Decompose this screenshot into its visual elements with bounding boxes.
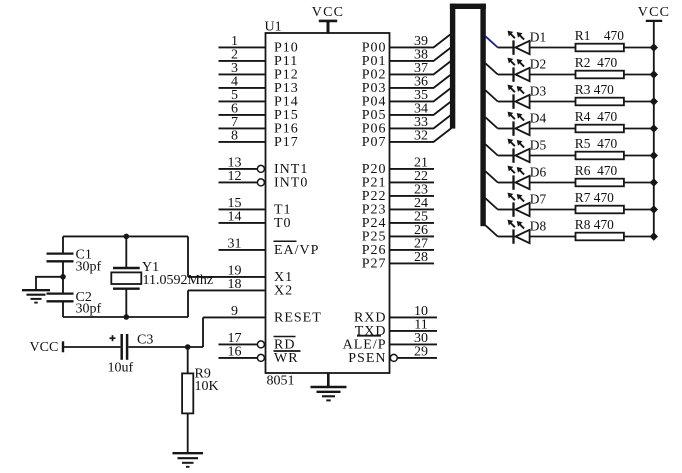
svg-text:8: 8 xyxy=(231,129,238,144)
resistor R4 470 xyxy=(575,109,624,132)
svg-text:31: 31 xyxy=(228,237,242,252)
node rail junction R4 xyxy=(650,124,658,132)
wire LED to resistor xyxy=(530,182,576,184)
svg-text:9: 9 xyxy=(231,304,238,319)
svg-text:D6: D6 xyxy=(530,165,547,180)
node rail junction R7 xyxy=(650,205,658,213)
LED D2 xyxy=(498,57,546,82)
wire resistor to VCC rail xyxy=(624,101,654,103)
wire to crystal ground xyxy=(36,277,63,290)
node junction C1/C2 xyxy=(60,274,66,280)
pin 18 X2 xyxy=(188,277,293,299)
svg-text:R2 470: R2 470 xyxy=(575,55,618,70)
pin 13 INT1 xyxy=(219,156,309,178)
resistor R8 470 xyxy=(575,217,624,240)
svg-text:30pf: 30pf xyxy=(76,260,102,275)
svg-text:12: 12 xyxy=(228,169,242,184)
LED D5 xyxy=(498,138,547,163)
wire bus to D3 xyxy=(485,90,498,101)
node rail junction R6 xyxy=(650,178,658,186)
svg-text:18: 18 xyxy=(228,277,242,292)
svg-text:D7: D7 xyxy=(530,192,547,207)
svg-text:R4 470: R4 470 xyxy=(575,109,618,124)
wire resistor to VCC rail xyxy=(624,182,654,184)
pin 35 P04 xyxy=(362,88,434,110)
ground (crystal caps) xyxy=(22,290,50,302)
node crystal bottom xyxy=(124,314,130,320)
crystal Y1 11.0592Mhz xyxy=(111,236,213,317)
pin 24 P23 xyxy=(362,196,434,218)
LED D1 xyxy=(498,30,546,55)
svg-text:D5: D5 xyxy=(530,138,547,153)
pin 21 P20 xyxy=(362,156,434,178)
pin 4 P13 xyxy=(219,75,299,97)
pin 36 P03 xyxy=(362,75,434,97)
svg-text:14: 14 xyxy=(228,210,242,225)
svg-text:INT0: INT0 xyxy=(274,176,308,191)
ground (R9) xyxy=(173,453,204,467)
pin 11 TXD xyxy=(355,318,437,340)
wire resistor to VCC rail xyxy=(624,209,654,211)
LED D7 xyxy=(498,192,547,217)
svg-text:P17: P17 xyxy=(274,135,299,150)
svg-text:11.0592Mhz: 11.0592Mhz xyxy=(143,273,214,288)
pin 10 RXD xyxy=(354,304,437,326)
LED D6 xyxy=(498,165,547,190)
bus top horizontal xyxy=(450,4,486,9)
resistor R3 470 xyxy=(575,82,624,105)
pin 34 P05 xyxy=(362,102,434,124)
pin 8 P17 xyxy=(219,129,299,151)
pin 27 P26 xyxy=(362,237,434,259)
wire P02 to bus xyxy=(434,61,452,75)
node rail junction R3 xyxy=(650,97,658,105)
pin 3 P12 xyxy=(219,61,299,83)
pin 30 ALE/P xyxy=(343,331,437,353)
pin 16 WR xyxy=(219,345,299,367)
node rail junction R5 xyxy=(650,151,658,159)
svg-text:D1: D1 xyxy=(530,30,546,45)
wire resistor to VCC rail xyxy=(624,74,654,76)
wire P00 to bus xyxy=(434,34,452,48)
power VCC (LED rail) xyxy=(638,5,670,21)
pin 39 P00 xyxy=(362,34,434,56)
wire bus to D8 xyxy=(485,225,498,236)
wire P03 to bus xyxy=(434,74,452,88)
pin 29 PSEN xyxy=(348,345,437,367)
wire P04 to bus xyxy=(434,88,452,102)
bus left vertical (P0 port bus) xyxy=(450,4,455,129)
pin 5 P14 xyxy=(219,88,299,110)
svg-text:29: 29 xyxy=(414,345,428,360)
resistor R1 470 xyxy=(575,28,624,51)
wire bus to D1 xyxy=(485,36,498,47)
svg-text:30pf: 30pf xyxy=(76,302,102,317)
wire top of crystal loop (X1 net) xyxy=(63,235,188,237)
svg-text:RESET: RESET xyxy=(274,311,322,326)
wire P01 to bus xyxy=(434,47,452,61)
svg-text:T0: T0 xyxy=(274,216,292,231)
svg-text:R6 470: R6 470 xyxy=(575,163,618,178)
pin 19 X1 xyxy=(188,264,293,286)
pin 7 P16 xyxy=(219,115,299,137)
svg-text:R8 470: R8 470 xyxy=(575,217,614,232)
wire resistor to VCC rail xyxy=(624,128,654,130)
svg-text:10uf: 10uf xyxy=(108,360,134,375)
wire P07 to bus xyxy=(434,128,452,142)
pin 1 P10 xyxy=(219,34,299,56)
wire bus to D5 xyxy=(485,144,498,155)
svg-text:P27: P27 xyxy=(362,257,387,272)
svg-text:PSEN: PSEN xyxy=(348,351,386,366)
pin 37 P02 xyxy=(362,61,434,83)
svg-text:28: 28 xyxy=(414,250,428,265)
svg-text:D2: D2 xyxy=(530,57,546,72)
pin 17 RD xyxy=(219,331,301,353)
svg-text:VCC: VCC xyxy=(30,340,59,355)
wire VCC rail vertical xyxy=(653,21,655,237)
svg-text:R5 470: R5 470 xyxy=(575,136,618,151)
svg-text:R7 470: R7 470 xyxy=(575,190,614,205)
resistor R9 10K xyxy=(182,347,219,453)
pin 33 P06 xyxy=(362,115,434,137)
node rail junction R1 xyxy=(650,43,658,51)
svg-text:8051: 8051 xyxy=(267,374,295,389)
capacitor C2 30pf xyxy=(47,290,102,317)
svg-text:EA/VP: EA/VP xyxy=(274,243,319,258)
wire bus to D2 xyxy=(485,63,498,74)
wire resistor to VCC rail xyxy=(624,155,654,157)
wire bus to D6 xyxy=(485,171,498,182)
pin 38 P01 xyxy=(362,48,434,69)
wire LED to resistor xyxy=(530,155,576,157)
capacitor C3 10uf electrolytic xyxy=(108,333,154,376)
power VCC (reset circuit) xyxy=(30,340,64,355)
svg-text:U1: U1 xyxy=(265,20,282,35)
pin 12 INT0 xyxy=(219,169,309,191)
wire VCC to C3 xyxy=(63,346,120,348)
svg-text:VCC: VCC xyxy=(312,5,344,20)
LED D3 xyxy=(498,84,547,109)
resistor R5 470 xyxy=(575,136,624,159)
svg-text:D3: D3 xyxy=(530,84,547,99)
wire P06 to bus xyxy=(434,115,452,129)
wire LED to resistor xyxy=(530,128,576,130)
wire bus to D7 xyxy=(485,198,498,209)
node rail junction R2 xyxy=(650,70,658,78)
svg-text:32: 32 xyxy=(414,129,428,144)
pin 14 T0 xyxy=(219,210,292,232)
pin 31 EA/VP xyxy=(219,237,320,259)
resistor R2 470 xyxy=(575,55,624,78)
power VCC symbol (top of U1, pin 40) xyxy=(312,5,344,33)
bus right vertical xyxy=(480,4,485,227)
capacitor C1 30pf xyxy=(47,247,102,274)
wire C3 to reset node xyxy=(128,346,203,348)
pin 2 P11 xyxy=(219,48,299,69)
ground (U1 pin 20 GND) xyxy=(311,373,347,400)
wire right vertical to X1 xyxy=(187,236,189,277)
svg-text:C3: C3 xyxy=(137,333,153,348)
node reset junction xyxy=(185,344,191,350)
pin 6 P15 xyxy=(219,102,299,124)
wire resistor to VCC rail xyxy=(624,47,654,49)
wire LED to resistor xyxy=(530,101,576,103)
pin 23 P22 xyxy=(362,183,434,205)
wire LED to resistor xyxy=(530,209,576,211)
wire right vertical to X2 xyxy=(187,290,189,317)
LED D8 xyxy=(498,219,547,244)
wire LED to resistor xyxy=(530,74,576,76)
svg-text:WR: WR xyxy=(274,351,299,366)
svg-text:P07: P07 xyxy=(362,135,387,150)
node crystal top xyxy=(124,234,130,240)
svg-text:VCC: VCC xyxy=(638,5,670,20)
wire bus to D4 xyxy=(485,117,498,128)
svg-text:R3 470: R3 470 xyxy=(575,82,614,97)
pin 26 P25 xyxy=(362,223,434,245)
node rail junction R8 xyxy=(650,232,658,240)
pin 22 P21 xyxy=(362,169,434,191)
wire LED to resistor xyxy=(530,47,576,49)
pin 32 P07 xyxy=(362,129,434,151)
pin 25 P24 xyxy=(362,210,434,232)
svg-text:D4: D4 xyxy=(530,111,547,126)
pin 9 RESET xyxy=(203,304,322,326)
svg-text:D8: D8 xyxy=(530,219,547,234)
wire P05 to bus xyxy=(434,101,452,115)
svg-text:X2: X2 xyxy=(274,284,293,299)
svg-text:10K: 10K xyxy=(195,379,219,394)
wire left vertical through C1/C2 xyxy=(62,236,64,317)
pin 28 P27 xyxy=(362,250,434,272)
svg-text:R1 470: R1 470 xyxy=(575,28,624,43)
IC U1 8051 microcontroller body xyxy=(265,20,390,389)
pin 15 T1 xyxy=(219,196,292,218)
wire resistor to VCC rail xyxy=(624,236,654,238)
resistor R7 470 xyxy=(575,190,624,213)
resistor R6 470 xyxy=(575,163,624,186)
wire LED to resistor xyxy=(530,236,576,238)
svg-text:16: 16 xyxy=(228,345,242,360)
LED D4 xyxy=(498,111,547,136)
wire bottom of crystal loop (X2 net) xyxy=(63,316,188,318)
wire up to RESET pin xyxy=(202,317,204,347)
